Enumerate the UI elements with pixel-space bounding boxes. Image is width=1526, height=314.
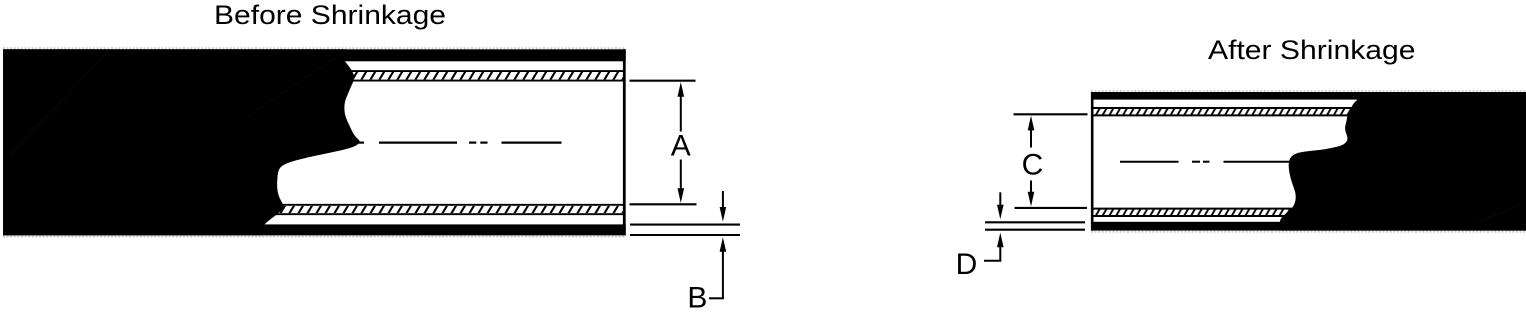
dimension A — [630, 81, 697, 205]
C extension line bottom — [1015, 207, 1088, 209]
faint scan artifact diagonal — [10, 51, 108, 155]
D extension line lower — [985, 229, 1085, 231]
svg-text:A: A — [671, 130, 691, 163]
D leader connector — [984, 260, 1001, 262]
left solid black body with wavy break edge — [3, 49, 360, 235]
D arrow up — [997, 233, 1004, 248]
C arrow down — [1028, 192, 1035, 207]
C extension line top — [1014, 113, 1088, 115]
svg-text:B: B — [687, 282, 707, 314]
A extension line top — [630, 80, 696, 82]
right tube top wall hatch — [1093, 108, 1356, 115]
B extension line lower — [630, 234, 740, 236]
faint scan artifact diagonal right — [1477, 205, 1519, 223]
A arrow up — [678, 82, 685, 97]
B arrow down — [722, 191, 724, 209]
right tube centerline — [1120, 161, 1290, 163]
D arrow down — [999, 192, 1001, 206]
left tube top black band — [3, 49, 626, 61]
dimension C — [1014, 114, 1088, 208]
B extension line upper — [630, 224, 740, 226]
right tube bottom wall hatch — [1093, 209, 1303, 216]
left tube top wall hatch — [340, 71, 624, 81]
B leader connector — [709, 297, 724, 299]
svg-text:After Shrinkage: After Shrinkage — [1208, 35, 1416, 65]
right tube top black band — [1091, 92, 1526, 100]
fuzzy scan border top — [3, 47, 626, 49]
fuzzy scan border top right — [1091, 90, 1526, 92]
A extension line bottom — [630, 203, 697, 205]
fuzzy scan border bottom — [3, 236, 626, 238]
svg-text:Before Shrinkage: Before Shrinkage — [214, 0, 446, 30]
D extension line upper — [985, 221, 1085, 223]
left tube bottom wall hatch — [258, 205, 624, 214]
svg-text:D: D — [956, 248, 978, 281]
C arrow up — [1028, 116, 1035, 131]
right solid black body with wavy break edge — [1280, 92, 1526, 231]
right tube bottom black band — [1091, 222, 1526, 231]
left tube right edge line — [623, 49, 626, 235]
B arrow up — [720, 237, 727, 252]
fuzzy scan border bottom right — [1091, 231, 1526, 233]
dimension D — [956, 192, 1085, 281]
svg-text:C: C — [1022, 148, 1044, 181]
A arrow down — [678, 188, 685, 203]
left tube centerline — [356, 142, 562, 144]
left tube bottom black band — [3, 224, 626, 235]
dimension B — [630, 191, 740, 314]
right tube left edge line — [1091, 92, 1094, 231]
